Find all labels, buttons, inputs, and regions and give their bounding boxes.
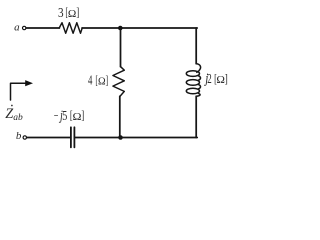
wire: top junction down to resistor R2 [120, 28, 122, 67]
svg-text:]: ] [106, 73, 109, 87]
svg-text:ab: ab [13, 113, 23, 123]
svg-text:]: ] [225, 71, 228, 85]
wire: terminal b to capacitor C1 [27, 137, 70, 139]
wire: resistor R2 to bottom junction [119, 96, 121, 137]
svg-text:4: 4 [88, 73, 93, 88]
capacitor C1 left plate [70, 127, 72, 147]
wire: resistor R1 to top-right corner [82, 27, 197, 29]
svg-text:]: ] [76, 5, 79, 19]
wire: capacitor C1 to bottom-right corner [75, 137, 197, 139]
svg-text:2: 2 [207, 71, 211, 86]
arrowhead of Z_ab arrow [25, 80, 33, 86]
node: bottom junction [118, 135, 123, 140]
svg-text:Ω: Ω [98, 76, 106, 88]
wire: inductor L1 down to bottom-right corner [195, 96, 197, 137]
wire: top-right corner down to inductor L1 [195, 28, 197, 64]
resistor 4 ohm (vertical) [113, 67, 124, 97]
svg-text:5: 5 [62, 108, 67, 123]
inductor L1 connector 1 [199, 76, 201, 80]
inductor L1 loop 3 [186, 88, 199, 94]
terminal b [23, 136, 26, 139]
svg-text:a: a [14, 22, 20, 34]
inductor L1 entry hook [196, 64, 200, 73]
inductor L1 loop 1 [186, 71, 199, 77]
wire: terminal a to resistor R1 [26, 27, 59, 29]
inductor L1 exit hook [197, 93, 201, 96]
node: top junction [118, 26, 123, 31]
inductor L1 loop 2 [186, 80, 199, 86]
svg-text:Ω: Ω [68, 8, 76, 20]
arrow line of impedance Z_ab [11, 83, 26, 100]
svg-text:Ω: Ω [72, 111, 81, 123]
inductor L1 connector 2 [199, 85, 201, 89]
svg-text:−: − [54, 108, 59, 123]
svg-text:]: ] [81, 108, 84, 122]
capacitor C1 right plate [73, 127, 75, 147]
terminal a [23, 26, 26, 29]
svg-text:b: b [16, 130, 22, 142]
resistor 3 ohm [59, 23, 82, 34]
dot above Z [11, 105, 13, 107]
svg-text:3: 3 [58, 5, 64, 20]
